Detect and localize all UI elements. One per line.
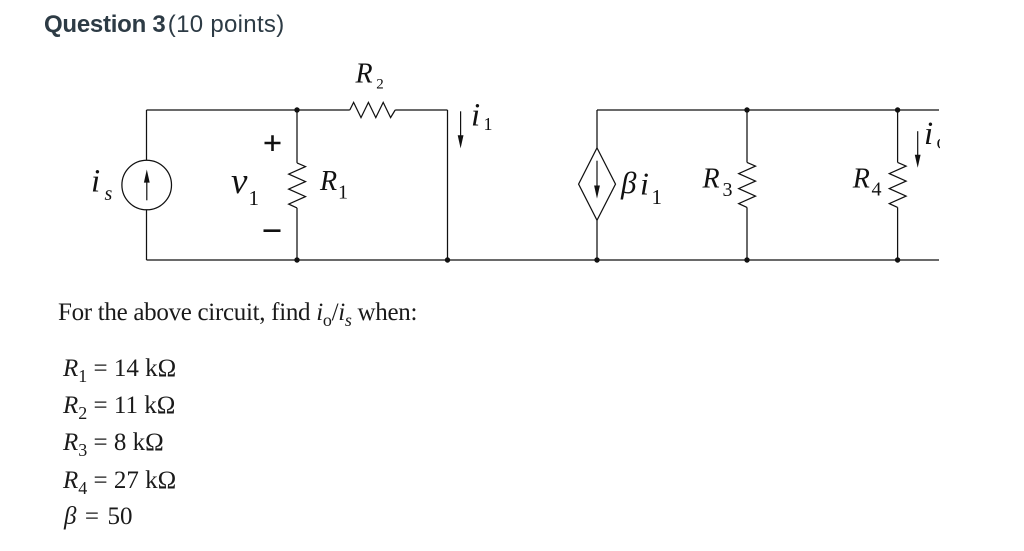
node top R4 [895, 107, 900, 112]
minus sign [264, 229, 281, 232]
node top R3 [744, 107, 749, 112]
svg-text:4: 4 [872, 179, 882, 201]
wire R1 branch upper [296, 110, 298, 163]
wire top rail right section [597, 109, 939, 111]
wire top to right corner loop1 [395, 109, 447, 111]
arrow inside dependent source [594, 161, 600, 199]
svg-text:3: 3 [723, 179, 733, 201]
svg-text:i: i [640, 165, 649, 201]
resistor R4 (vertical zigzag) [889, 162, 906, 207]
svg-text:i: i [924, 116, 933, 152]
node bottom loop1 right [445, 257, 450, 262]
resistor R1 (vertical zigzag) [289, 163, 306, 208]
svg-text:1: 1 [338, 182, 348, 204]
equation R3 [63, 429, 164, 457]
equation R1 [63, 355, 176, 383]
wire R1 branch lower [296, 208, 298, 260]
wire left branch lower [146, 210, 148, 260]
svg-text:1: 1 [249, 186, 260, 210]
svg-text:2: 2 [376, 77, 384, 93]
svg-text:i: i [471, 98, 480, 134]
question text [58, 299, 417, 327]
resistor R3 (vertical zigzag) [739, 162, 756, 207]
arrow inside source is [144, 170, 150, 201]
svg-text:s: s [105, 183, 113, 205]
wire R3 branch upper [746, 110, 748, 162]
node top R1 [294, 107, 299, 112]
current arrow i1 [458, 111, 464, 148]
svg-text:i: i [91, 163, 100, 199]
svg-text:R: R [319, 166, 337, 197]
wire top-left loop1 [147, 109, 350, 111]
equation R4 [63, 467, 176, 495]
title [44, 11, 285, 39]
dependent source diamond [579, 148, 616, 220]
svg-text:β: β [620, 165, 637, 200]
node bottom R1 [294, 257, 299, 262]
svg-text:R: R [702, 164, 720, 195]
wire dep-source branch lower [596, 220, 598, 260]
current arrow io [915, 131, 921, 168]
wire R4 branch lower [897, 207, 899, 260]
node bottom R3 [744, 257, 749, 262]
svg-text:o: o [937, 132, 941, 154]
plus sign [265, 135, 281, 151]
node bottom dep source [594, 257, 599, 262]
svg-text:1: 1 [484, 114, 493, 134]
current source is (circle) [122, 160, 172, 210]
equation beta [64, 503, 132, 531]
wire R3 branch lower [746, 207, 748, 260]
svg-text:R: R [355, 59, 373, 90]
wire R4 branch upper [897, 110, 899, 162]
resistor R2 (horizontal zigzag) [350, 102, 395, 117]
wire bottom rail [147, 259, 940, 261]
wire left branch upper [146, 110, 148, 160]
svg-text:v: v [231, 161, 248, 202]
wire right branch loop1 down [447, 110, 449, 260]
svg-text:R: R [852, 164, 870, 195]
wire dep-source branch upper [596, 110, 598, 148]
node bottom R4 [895, 257, 900, 262]
equation R2 [63, 392, 175, 420]
svg-text:1: 1 [652, 185, 663, 209]
